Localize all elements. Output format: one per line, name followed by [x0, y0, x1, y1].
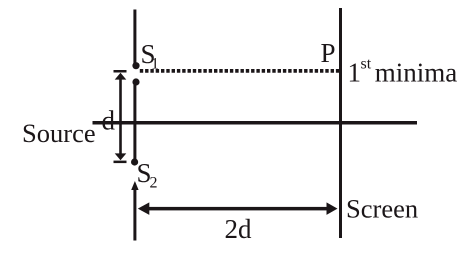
svg-text:Screen: Screen: [346, 194, 418, 224]
d dimension top arrowhead: [115, 73, 127, 80]
d dimension bottom arrowhead: [115, 153, 127, 160]
svg-text:d: d: [102, 106, 116, 136]
d dimension bottom bar: [114, 161, 127, 164]
slit S2 dot: [131, 158, 138, 165]
dotted ray S1 to P: [140, 69, 339, 73]
svg-text:P: P: [321, 38, 336, 68]
d dimension top bar: [114, 70, 127, 73]
central axis wire: [93, 121, 418, 125]
slit barrier lower segment arrowhead: [131, 181, 138, 190]
svg-text:1: 1: [348, 58, 362, 88]
svg-text:Source: Source: [22, 118, 96, 148]
svg-text:S2: S2: [137, 158, 158, 192]
svg-text:minima: minima: [375, 58, 458, 88]
slit barrier lower segment: [133, 190, 136, 241]
2d dimension line: [141, 207, 333, 211]
slit barrier upper segment: [133, 10, 136, 67]
2d dimension left arrowhead: [138, 202, 150, 215]
svg-text:2d: 2d: [225, 214, 253, 244]
screen line: [339, 8, 342, 238]
svg-text:S1: S1: [141, 39, 160, 73]
2d dimension right arrowhead: [327, 202, 338, 215]
slit S1 dot: [132, 62, 139, 69]
source-side dot below S1: [132, 78, 139, 85]
d dimension line: [119, 76, 122, 156]
svg-text:st: st: [361, 56, 372, 73]
slit barrier middle segment: [133, 84, 136, 159]
